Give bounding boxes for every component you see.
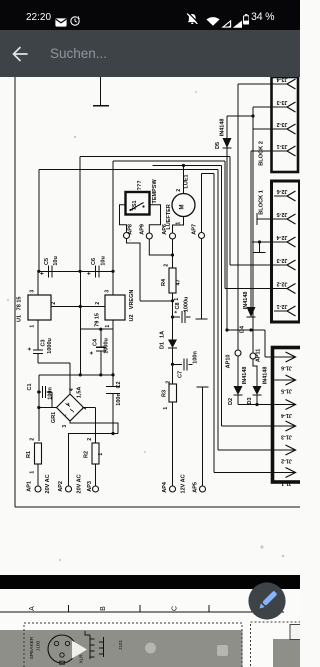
svg-text:C: C xyxy=(172,606,179,611)
svg-text:1000u: 1000u xyxy=(47,338,53,354)
svg-text:79 15: 79 15 xyxy=(95,313,101,327)
svg-text:AP8: AP8 xyxy=(128,224,134,235)
svg-text:AP3: AP3 xyxy=(87,481,93,492)
svg-text:AP10: AP10 xyxy=(226,355,232,369)
svg-text:47: 47 xyxy=(176,279,182,285)
svg-text:AP11: AP11 xyxy=(256,349,262,362)
svg-text:D3: D3 xyxy=(247,397,253,404)
svg-text:M: M xyxy=(180,205,186,210)
svg-text:D2: D2 xyxy=(228,398,234,405)
svg-text:AP6: AP6 xyxy=(162,224,168,235)
svg-text:J100: J100 xyxy=(36,640,42,651)
svg-text:4: 4 xyxy=(69,388,75,391)
svg-text:J3-2: J3-2 xyxy=(276,121,287,127)
svg-text:1: 1 xyxy=(30,325,36,328)
svg-text:R4: R4 xyxy=(161,278,167,286)
svg-text:2: 2 xyxy=(30,438,36,441)
svg-text:BLOCK 1: BLOCK 1 xyxy=(259,190,265,215)
svg-text:1: 1 xyxy=(174,298,180,301)
svg-text:C7: C7 xyxy=(178,371,184,378)
svg-text:+: + xyxy=(87,271,93,275)
svg-text:BLOCK 2: BLOCK 2 xyxy=(259,141,265,166)
svg-text:+: + xyxy=(90,351,96,355)
svg-text:R1: R1 xyxy=(26,451,32,458)
svg-text:1000u: 1000u xyxy=(184,297,190,313)
svg-text:R2: R2 xyxy=(84,451,90,458)
svg-text:2: 2 xyxy=(95,302,101,305)
svg-text:1: 1 xyxy=(30,471,36,474)
svg-text:+: + xyxy=(174,310,180,313)
svg-text:1: 1 xyxy=(98,453,104,456)
svg-text:J3-3: J3-3 xyxy=(276,99,287,105)
svg-text:2: 2 xyxy=(51,302,57,305)
svg-text:A: A xyxy=(29,606,36,611)
svg-text:J1-4: J1-4 xyxy=(280,412,292,418)
svg-text:AP2: AP2 xyxy=(58,481,64,492)
svg-text:R3: R3 xyxy=(162,390,168,397)
svg-text:J2-1: J2-1 xyxy=(276,303,287,309)
svg-text:IN4148: IN4148 xyxy=(220,119,226,137)
svg-text:2: 2 xyxy=(166,381,172,384)
svg-text:J2-5: J2-5 xyxy=(276,211,287,217)
svg-text:100n: 100n xyxy=(116,393,122,406)
svg-text:1000u: 1000u xyxy=(104,338,110,354)
svg-text:D5: D5 xyxy=(215,142,221,149)
svg-text:100n: 100n xyxy=(193,351,199,364)
svg-text:AP7: AP7 xyxy=(192,224,198,235)
svg-text:C5: C5 xyxy=(44,258,50,265)
svg-text:J2-4: J2-4 xyxy=(276,234,288,240)
svg-text:LUE1: LUE1 xyxy=(184,174,190,188)
svg-text:10u: 10u xyxy=(53,256,59,265)
svg-text:100n: 100n xyxy=(48,387,54,400)
svg-text:J3-1: J3-1 xyxy=(276,143,287,149)
svg-text:VREGN: VREGN xyxy=(129,290,135,310)
svg-text:1: 1 xyxy=(105,325,111,328)
svg-text:J1-3: J1-3 xyxy=(281,433,292,439)
svg-text:GR1: GR1 xyxy=(51,412,57,423)
svg-text:3: 3 xyxy=(62,425,68,428)
svg-text:U1: U1 xyxy=(17,315,23,322)
svg-text:D1: D1 xyxy=(160,342,166,349)
svg-text:U2: U2 xyxy=(129,314,135,321)
svg-text:+: + xyxy=(28,347,34,351)
svg-text:D4: D4 xyxy=(240,325,246,333)
svg-text:AP5: AP5 xyxy=(193,482,199,493)
svg-text:TEMPSW: TEMPSW xyxy=(152,179,158,204)
svg-text:J101: J101 xyxy=(118,639,124,650)
svg-text:TS1: TS1 xyxy=(132,200,138,210)
svg-text:+: + xyxy=(66,402,72,405)
svg-text:B: B xyxy=(100,606,107,611)
svg-text:1: 1 xyxy=(163,407,169,410)
svg-text:3: 3 xyxy=(105,290,111,293)
svg-text:J1-5: J1-5 xyxy=(281,387,292,393)
svg-text:C4: C4 xyxy=(93,338,99,346)
svg-text:IN4148: IN4148 xyxy=(243,292,249,310)
svg-text:AP4: AP4 xyxy=(162,481,168,493)
svg-text:IN4148: IN4148 xyxy=(263,367,269,385)
svg-text:C8: C8 xyxy=(175,302,181,309)
svg-text:2: 2 xyxy=(87,438,93,441)
svg-text:???: ??? xyxy=(137,180,143,191)
svg-text:1,5A: 1,5A xyxy=(77,387,83,399)
svg-text:AP9: AP9 xyxy=(140,224,146,235)
svg-text:C3: C3 xyxy=(41,339,47,346)
svg-text:3: 3 xyxy=(30,290,36,293)
svg-text:20V AC: 20V AC xyxy=(77,474,83,493)
svg-text:J1-2: J1-2 xyxy=(281,457,292,463)
svg-text:+: + xyxy=(40,271,46,275)
svg-text:12V AC: 12V AC xyxy=(181,474,187,493)
svg-text:10u: 10u xyxy=(101,256,107,265)
svg-text:SPEAKER: SPEAKER xyxy=(29,636,35,659)
svg-text:C6: C6 xyxy=(91,258,97,265)
svg-text:C2: C2 xyxy=(116,381,122,388)
svg-text:J3-4: J3-4 xyxy=(276,77,288,82)
svg-text:1: 1 xyxy=(176,222,182,225)
svg-text:2: 2 xyxy=(164,264,170,267)
svg-text:J2-6: J2-6 xyxy=(276,188,287,194)
svg-text:78 15: 78 15 xyxy=(17,297,23,311)
svg-text:2: 2 xyxy=(176,189,182,192)
svg-text:1A: 1A xyxy=(160,331,166,338)
svg-text:J1-1: J1-1 xyxy=(281,480,292,486)
svg-text:20V AC: 20V AC xyxy=(45,474,51,493)
svg-text:C1: C1 xyxy=(27,383,33,390)
svg-text:XLR: XLR xyxy=(79,654,85,664)
svg-text:J2-2: J2-2 xyxy=(276,281,287,287)
svg-text:J1-6: J1-6 xyxy=(281,364,292,370)
svg-text:J2-3: J2-3 xyxy=(276,257,287,263)
svg-text:AP1: AP1 xyxy=(27,481,33,492)
svg-text:IN4148: IN4148 xyxy=(242,367,248,385)
